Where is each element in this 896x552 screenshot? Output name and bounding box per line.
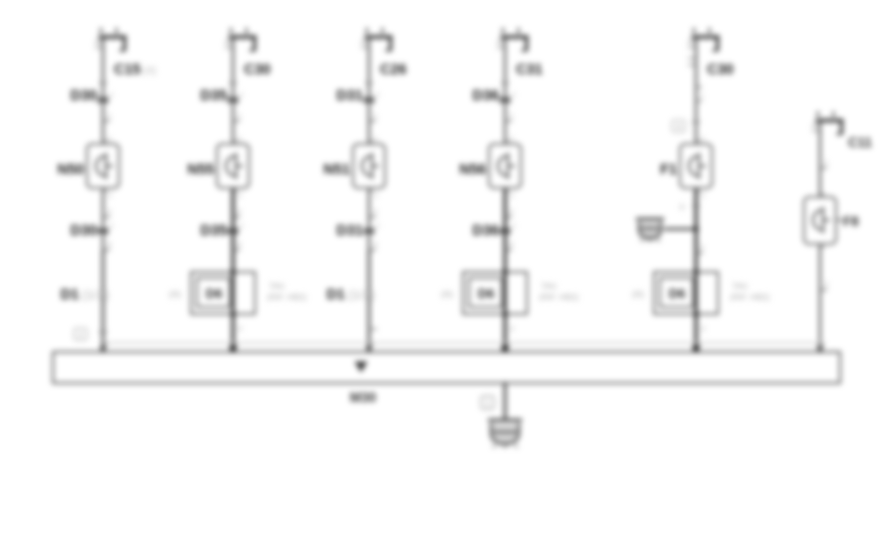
wire column 2 main vertical: [232, 37, 234, 352]
svg-text:1: 1: [108, 136, 112, 143]
svg-text:2: 2: [374, 193, 378, 200]
svg-text:2: 2: [373, 207, 377, 216]
svg-text:TAV.: TAV.: [269, 281, 286, 291]
foot at bar junction line: [233, 343, 238, 345]
svg-text:C30: C30: [707, 62, 734, 78]
component F8 box: [804, 197, 836, 244]
ground pin number box: [481, 396, 494, 409]
tick above connector: [501, 82, 509, 84]
pin stubs at box: [233, 141, 238, 191]
connector D6 inner box: [469, 278, 502, 307]
wire column 2 thick lower segment: [231, 188, 234, 352]
svg-text:C11: C11: [848, 135, 873, 150]
svg-text:3: 3: [679, 202, 684, 212]
connector D6 inner box: [660, 278, 693, 307]
svg-text:TAV.: TAV.: [541, 281, 558, 291]
lower wire slightly heavier: [102, 250, 105, 352]
svg-text:2: 2: [824, 280, 828, 289]
ground bus bar M30: [53, 352, 840, 383]
component N50 box: [87, 144, 119, 188]
svg-text:D31: D31: [336, 88, 363, 104]
svg-text:1: 1: [376, 223, 380, 230]
junction dots on D6: [230, 269, 235, 274]
component F1 box: [680, 144, 712, 188]
svg-text:D35: D35: [200, 223, 227, 239]
svg-text:D1: D1: [326, 287, 345, 303]
lower wire slightly heavier: [368, 250, 371, 352]
svg-text:N51: N51: [323, 162, 350, 178]
svg-text:2: 2: [108, 193, 112, 200]
power feed hook C30: [225, 28, 257, 51]
pin tick 3: [505, 249, 512, 251]
svg-text:4: 4: [676, 122, 681, 132]
svg-text:2: 2: [78, 330, 83, 340]
direction arrow in bar: [355, 362, 368, 373]
pin tick 1: [820, 167, 827, 169]
svg-text:D30: D30: [70, 223, 97, 239]
svg-text:(1/2): (1/2): [348, 290, 376, 302]
svg-text:3: 3: [373, 240, 377, 249]
svg-text:(RIF. HB2): (RIF. HB2): [730, 292, 770, 302]
svg-text:D6: D6: [669, 286, 686, 301]
pin number box col5: [672, 120, 685, 132]
component N51 symbol: [362, 153, 379, 179]
svg-text:1: 1: [510, 136, 514, 143]
svg-text:D36: D36: [472, 88, 499, 104]
svg-text:1: 1: [240, 223, 244, 230]
component N55 symbol: [226, 153, 243, 179]
pin tick 2: [696, 252, 703, 254]
pin stubs at box: [369, 141, 374, 191]
pin stubs at box: [103, 141, 108, 191]
pin tick 2: [369, 216, 376, 218]
wire column 5 thick lower segment: [694, 188, 697, 352]
svg-text:D35: D35: [200, 88, 227, 104]
svg-text:2: 2: [510, 324, 514, 333]
foot at bar junction line col6: [820, 343, 825, 345]
foot at bar junction line: [103, 343, 108, 345]
svg-text:N56: N56: [459, 162, 486, 178]
svg-text:1: 1: [240, 92, 244, 99]
wire column 4 main vertical: [504, 37, 506, 352]
svg-text:(4): (4): [143, 65, 156, 77]
wire column 6 main vertical: [819, 120, 821, 352]
inline connector D31 lower: [365, 228, 374, 235]
tick above connector: [365, 82, 373, 84]
auxiliary ground symbol: [636, 219, 664, 241]
svg-text:D6: D6: [478, 286, 495, 301]
svg-text:2: 2: [107, 207, 111, 216]
component F1 symbol: [689, 153, 706, 179]
svg-text:3: 3: [237, 240, 241, 249]
svg-text:(A): (A): [441, 289, 453, 299]
pin tick 2: [103, 216, 110, 218]
svg-text:(A): (A): [169, 289, 181, 299]
tick above connector: [229, 82, 237, 84]
svg-text:(RIF. HB2): (RIF. HB2): [539, 292, 579, 302]
power feed hook C30: [688, 28, 720, 51]
power feed hook C26: [361, 28, 393, 51]
pin tick 2: [233, 216, 240, 218]
pin tick 1: [369, 120, 376, 122]
svg-text:2: 2: [238, 193, 242, 200]
component F8 symbol: [813, 207, 830, 233]
ground wire below bar: [504, 382, 507, 419]
svg-text:F8: F8: [843, 214, 859, 229]
pin tick 3: [103, 249, 110, 251]
component N51 box: [353, 144, 385, 188]
svg-text:TAV.: TAV.: [732, 281, 749, 291]
pin tick 3: [369, 249, 376, 251]
connector D6 outer box: [191, 272, 255, 314]
inline connector D36 upper: [501, 97, 510, 104]
power feed hook C11: [812, 112, 844, 135]
power feed hook C31: [497, 28, 529, 51]
svg-text:1: 1: [485, 398, 490, 408]
connector D6 inner box: [197, 278, 230, 307]
svg-text:2: 2: [700, 243, 704, 252]
svg-text:D6: D6: [206, 286, 223, 301]
svg-text:D1: D1: [60, 287, 79, 303]
svg-text:1: 1: [509, 111, 513, 120]
pin tick near bar: [369, 328, 377, 330]
svg-text:2: 2: [238, 324, 242, 333]
svg-text:C15: C15: [114, 62, 141, 78]
svg-text:(1/2): (1/2): [82, 290, 110, 302]
svg-text:F1: F1: [660, 162, 677, 178]
bar entry junctions: [100, 345, 106, 351]
svg-text:2: 2: [701, 193, 705, 200]
svg-text:2: 2: [237, 207, 241, 216]
svg-text:D30: D30: [70, 88, 97, 104]
wire column 4 thick lower segment: [503, 188, 506, 352]
component F8 lead and label: [835, 219, 842, 221]
component N56 symbol: [498, 153, 515, 179]
svg-text:1: 1: [238, 136, 242, 143]
junction dots on D6: [693, 269, 698, 274]
pin stubs at box: [505, 141, 510, 191]
pin tick 2: [505, 216, 512, 218]
svg-text:N55: N55: [187, 162, 214, 178]
svg-text:D31: D31: [336, 223, 363, 239]
pin tick near bar: [99, 331, 107, 333]
svg-text:2: 2: [510, 193, 514, 200]
pin tick 2: [820, 289, 827, 291]
connector D6 outer box: [654, 272, 718, 314]
svg-text:1: 1: [110, 223, 114, 230]
wire column 3 main vertical: [368, 37, 370, 352]
svg-text:1: 1: [376, 92, 380, 99]
inline connector D30 lower: [99, 228, 108, 235]
inline connector D35 upper: [229, 97, 238, 104]
pin stubs at box: [820, 194, 825, 247]
pin tick 1: [505, 120, 512, 122]
wire column 1 main vertical: [102, 37, 104, 352]
component N50 symbol: [96, 153, 113, 179]
foot at bar junction line: [369, 343, 374, 345]
svg-text:1: 1: [512, 92, 516, 99]
pin ticks col5 upper: [688, 58, 695, 65]
svg-text:C31: C31: [516, 62, 543, 78]
inline connector D31 upper: [365, 97, 374, 104]
connector D6 outer box: [463, 272, 527, 314]
inline connector D30 upper: [99, 97, 108, 104]
svg-text:2: 2: [701, 324, 705, 333]
svg-text:1: 1: [701, 136, 705, 143]
svg-text:(A): (A): [632, 289, 644, 299]
pin tick 3: [233, 249, 240, 251]
foot at bar junction line: [696, 343, 701, 345]
svg-text:1: 1: [824, 158, 828, 167]
svg-text:(RIF. HB2): (RIF. HB2): [267, 292, 307, 302]
pin tick 1: [103, 120, 110, 122]
junction dots on D6: [502, 269, 507, 274]
component N56 box: [489, 144, 521, 188]
svg-text:D36: D36: [472, 223, 499, 239]
pin stubs at box: [696, 141, 701, 191]
svg-text:1: 1: [237, 111, 241, 120]
wire column 5 main vertical: [695, 37, 697, 352]
svg-text:1: 1: [700, 93, 704, 100]
svg-text:1: 1: [512, 223, 516, 230]
tick above connector: [99, 82, 107, 84]
svg-text:3: 3: [509, 240, 513, 249]
inline connector D36 lower: [501, 228, 510, 235]
inline connector D35 lower: [229, 228, 238, 235]
junction line above bus bar: [103, 342, 821, 344]
foot at bar junction line: [505, 343, 510, 345]
branch wire to auxiliary ground: [664, 228, 696, 231]
svg-text:C30: C30: [244, 62, 271, 78]
power feed hook C15: [95, 28, 127, 51]
svg-text:1: 1: [110, 92, 114, 99]
ground symbol: [488, 420, 522, 447]
svg-text:M30: M30: [350, 390, 376, 405]
svg-text:N50: N50: [57, 162, 84, 178]
pin tick 1: [233, 120, 240, 122]
svg-text:1: 1: [373, 111, 377, 120]
svg-text:1: 1: [107, 111, 111, 120]
component N55 box: [217, 144, 249, 188]
svg-text:C26: C26: [380, 62, 407, 78]
svg-text:3: 3: [107, 240, 111, 249]
svg-text:1: 1: [374, 136, 378, 143]
svg-text:2: 2: [509, 207, 513, 216]
